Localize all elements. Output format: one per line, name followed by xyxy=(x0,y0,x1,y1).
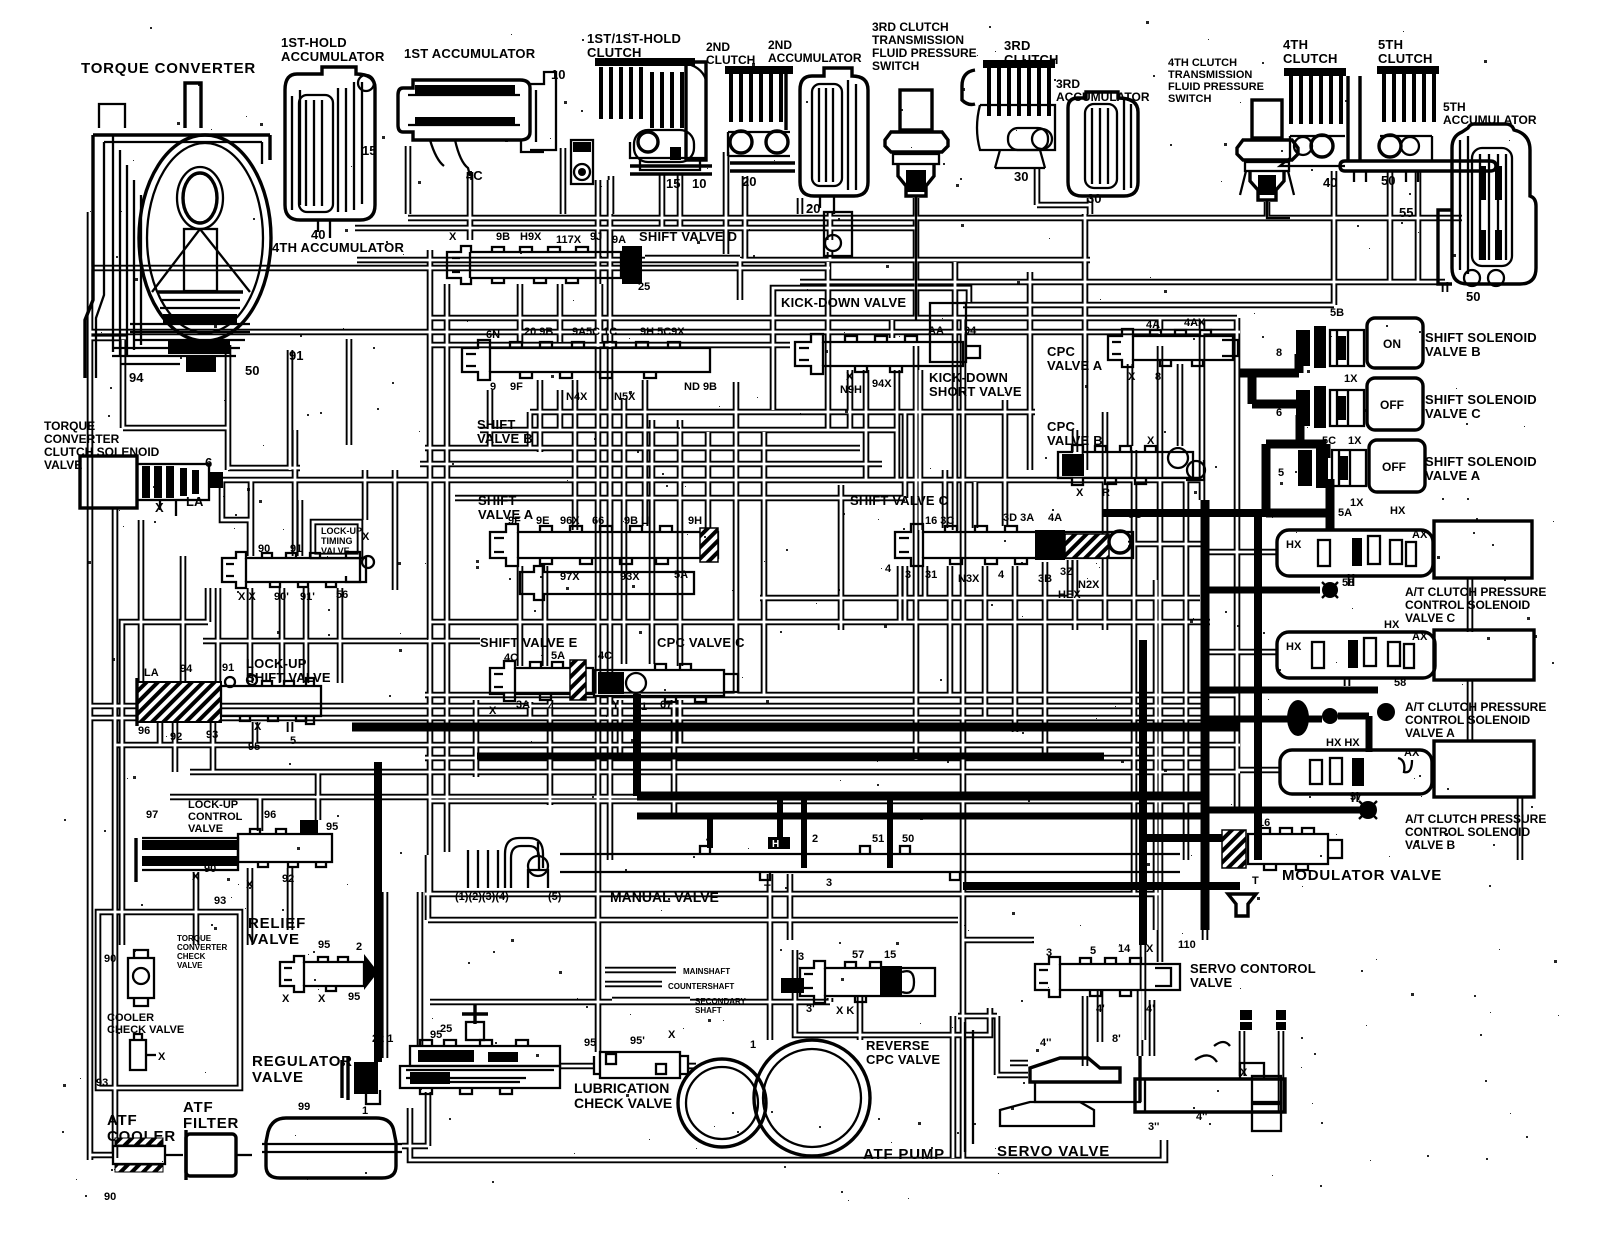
svg-text:15: 15 xyxy=(884,949,896,961)
svg-text:99: 99 xyxy=(298,1101,310,1113)
svg-text:X: X xyxy=(362,531,370,543)
wire kickdown drop 2 xyxy=(894,370,901,480)
wire 4th switch drop xyxy=(1264,202,1271,218)
wire cpc valve c thick drop xyxy=(633,694,641,796)
svg-text:94: 94 xyxy=(129,370,144,385)
wire right trunk 1186 xyxy=(1183,478,1190,860)
wire band2 h4 xyxy=(420,461,882,468)
wire 1st clutch drop b xyxy=(677,174,684,228)
wire left trunk a xyxy=(87,212,94,1160)
wire band2 v6 xyxy=(902,412,909,498)
svg-text:AX: AX xyxy=(1404,747,1420,759)
wire lock-up control drop 2 xyxy=(247,868,254,945)
svg-text:5: 5 xyxy=(1278,467,1284,479)
reverse cpc valve xyxy=(781,949,935,1017)
wire left box wall xyxy=(122,588,208,945)
svg-text:20: 20 xyxy=(742,174,756,189)
wire atcpc c left xyxy=(1202,549,1277,556)
wire right trunk 1237 xyxy=(1234,318,1241,810)
wire top bus 5 xyxy=(430,315,1237,322)
a/t clutch pressure control solenoid valve A body xyxy=(1277,619,1534,736)
svg-text:TORQUE: TORQUE xyxy=(177,934,212,943)
svg-text:SHORT VALVE: SHORT VALVE xyxy=(929,384,1022,399)
svg-text:1: 1 xyxy=(750,1039,756,1051)
svg-text:CONVERTER: CONVERTER xyxy=(177,943,227,952)
svg-text:REVERSE: REVERSE xyxy=(866,1038,930,1053)
svg-text:3Z: 3Z xyxy=(1060,566,1073,578)
svg-text:9: 9 xyxy=(490,381,496,393)
wire valve b port drop xyxy=(1352,792,1359,802)
wire kickdown drop 1 xyxy=(863,370,870,480)
svg-text:COOLER: COOLER xyxy=(107,1012,154,1024)
svg-text:30: 30 xyxy=(1087,191,1101,206)
svg-text:SHAFT: SHAFT xyxy=(695,1006,722,1015)
svg-text:X K: X K xyxy=(836,1005,854,1017)
4th clutch transmission fluid pressure switch xyxy=(1237,100,1298,218)
svg-text:30: 30 xyxy=(1014,169,1028,184)
svg-text:5A: 5A xyxy=(551,650,565,662)
wire right trunk 1202 upper xyxy=(1199,318,1206,500)
wire modulator feed (thick) xyxy=(1143,834,1222,842)
svg-text:5TH: 5TH xyxy=(1443,100,1466,114)
wire ball a feed 2 (thick) xyxy=(1202,716,1322,723)
svg-text:9H: 9H xyxy=(688,515,702,527)
svg-text:SWITCH: SWITCH xyxy=(1168,93,1211,105)
svg-text:X: X xyxy=(1146,943,1154,955)
wire ladder v2 xyxy=(649,420,656,664)
wire solenoid feed wire xyxy=(222,477,1202,484)
svg-text:A/T CLUTCH PRESSURE: A/T CLUTCH PRESSURE xyxy=(1405,585,1546,599)
svg-text:TRANSMISSION: TRANSMISSION xyxy=(1168,69,1252,81)
svg-text:92: 92 xyxy=(170,731,182,743)
wire bus 282 xyxy=(800,279,1445,286)
wire band2 h2 xyxy=(480,427,898,434)
svg-text:1X: 1X xyxy=(1348,435,1362,447)
svg-text:2: 2 xyxy=(812,833,818,845)
svg-text:31: 31 xyxy=(925,569,937,581)
svg-text:(5): (5) xyxy=(548,891,562,903)
wire 1st clutch drop a xyxy=(659,174,666,228)
svg-text:Y: Y xyxy=(612,699,620,711)
wire lock-up control drop 1 xyxy=(193,872,200,945)
wire valve a port drop xyxy=(1344,677,1351,686)
wire tc tail drop xyxy=(123,345,228,470)
1st-hold accumulator xyxy=(285,67,375,238)
svg-text:91: 91 xyxy=(290,543,302,555)
svg-text:VALVE B: VALVE B xyxy=(1425,344,1481,359)
svg-text:1ST/1ST-HOLD: 1ST/1ST-HOLD xyxy=(587,31,681,46)
svg-text:X X: X X xyxy=(238,591,256,603)
svg-text:9B: 9B xyxy=(496,231,510,243)
wire reverse cpc drop xyxy=(830,996,860,1040)
wire manual valve box bottom xyxy=(428,855,958,920)
svg-text:3RD: 3RD xyxy=(1004,38,1031,53)
wire ladder v3 xyxy=(677,420,684,666)
svg-text:ND 9B: ND 9B xyxy=(684,381,717,393)
wire valve b thick feed (thick) xyxy=(1338,716,1369,752)
svg-text:91': 91' xyxy=(300,591,315,603)
wire regulator feed h xyxy=(430,999,830,1006)
svg-text:6N: 6N xyxy=(486,329,500,341)
wire svd to svb drop 2 xyxy=(557,284,564,342)
svg-text:3RD CLUTCH: 3RD CLUTCH xyxy=(872,20,949,34)
svg-text:X: X xyxy=(489,705,497,717)
svg-text:SERVO CONTOROL: SERVO CONTOROL xyxy=(1190,961,1316,976)
svg-text:A/T CLUTCH PRESSURE: A/T CLUTCH PRESSURE xyxy=(1405,700,1546,714)
wire band2 v5 xyxy=(847,370,854,430)
svg-text:1X: 1X xyxy=(1350,497,1364,509)
wire sve drop 1 xyxy=(527,702,534,718)
svg-text:X: X xyxy=(1240,1067,1248,1079)
svg-text:40: 40 xyxy=(1323,175,1337,190)
shift valve C xyxy=(885,509,1142,601)
wire svb drop 1 xyxy=(537,380,544,452)
svg-text:X: X xyxy=(1147,435,1155,447)
a/t clutch pressure control solenoid valve B body xyxy=(1280,737,1534,819)
svg-text:VALVE: VALVE xyxy=(177,961,203,970)
svg-text:LOCK-UP: LOCK-UP xyxy=(246,656,307,671)
lock-up timing valve xyxy=(222,531,374,603)
svg-text:ACCUMULATOR: ACCUMULATOR xyxy=(281,49,385,64)
svg-text:CHECK VALVE: CHECK VALVE xyxy=(574,1095,672,1111)
wire trunk 790 manual xyxy=(787,874,794,940)
svg-text:4AX: 4AX xyxy=(1184,317,1206,329)
svg-text:H9X: H9X xyxy=(520,231,542,243)
wire bottom loop xyxy=(410,1108,1165,1160)
wire band2 v10 xyxy=(1102,412,1109,630)
svg-text:CHECK: CHECK xyxy=(177,952,206,961)
wire top bus 7 xyxy=(430,342,790,349)
wire 2nd clutch drop xyxy=(742,176,749,260)
wire servo 4p drop2 xyxy=(1137,990,1144,1056)
wire band3 h2 xyxy=(430,619,1210,626)
svg-text:VALVE: VALVE xyxy=(1190,975,1233,990)
atf filter xyxy=(186,1130,252,1180)
svg-text:90: 90 xyxy=(204,863,216,875)
wire lock-up shift drop 1 xyxy=(138,520,145,684)
svg-text:VALVE A: VALVE A xyxy=(478,507,534,522)
svg-text:9A: 9A xyxy=(612,234,626,246)
svg-text:VALVE: VALVE xyxy=(252,1069,304,1086)
wire 5th clutch manifold drop xyxy=(1415,171,1422,282)
svg-text:MANUAL VALVE: MANUAL VALVE xyxy=(610,889,719,905)
svg-text:2: 2 xyxy=(356,941,362,953)
svg-text:3A: 3A xyxy=(516,699,530,711)
svg-text:1ST ACCUMULATOR: 1ST ACCUMULATOR xyxy=(404,46,536,61)
svg-text:HX: HX xyxy=(1384,619,1400,631)
svg-text:X: X xyxy=(254,721,262,733)
svg-text:5B: 5B xyxy=(1330,307,1344,319)
wire sve drop extra xyxy=(473,700,480,777)
wire svc top drop 1 xyxy=(942,470,949,528)
wire regulator thick feed (thick) xyxy=(374,762,382,1062)
lubrication check valve xyxy=(584,1029,688,1078)
wire svc low v1 xyxy=(897,566,904,622)
wire svc ladder 1 xyxy=(1002,400,1009,456)
svg-text:SHIFT VALVE E: SHIFT VALVE E xyxy=(480,635,578,650)
svg-text:KICK-DOWN: KICK-DOWN xyxy=(929,370,1008,385)
svg-text:50: 50 xyxy=(902,833,914,845)
svg-text:57: 57 xyxy=(1350,791,1362,803)
shift valve E xyxy=(489,650,612,717)
svg-text:4A: 4A xyxy=(1146,319,1160,331)
3rd accumulator xyxy=(1068,92,1138,196)
svg-text:4'': 4'' xyxy=(1196,1111,1208,1123)
svg-text:LOCK-UP: LOCK-UP xyxy=(188,799,238,811)
svg-text:HX: HX xyxy=(1286,539,1302,551)
svg-text:9F: 9F xyxy=(510,381,523,393)
svg-text:96: 96 xyxy=(138,725,150,737)
wire ball c feed (thick) xyxy=(1202,587,1320,594)
wire svc bot drop 4 xyxy=(1042,562,1049,758)
wire countershaft line xyxy=(605,981,662,988)
wire lock-up timing drop 4 xyxy=(337,588,344,683)
wire bus 305 xyxy=(963,302,1334,309)
wire sol feed h1 (thick) xyxy=(1240,369,1299,378)
svg-text:CLUTCH: CLUTCH xyxy=(1283,51,1338,66)
wire right trunk 1134 xyxy=(1131,450,1138,894)
svg-text:4TH ACCUMULATOR: 4TH ACCUMULATOR xyxy=(272,240,404,255)
wire kickdown port 9 xyxy=(889,320,896,338)
wire servo ctl right xyxy=(1157,894,1164,962)
wire servo right v xyxy=(1010,1060,1028,1067)
wire right trunk 1475 xyxy=(1467,578,1474,741)
svg-text:1: 1 xyxy=(362,1105,368,1117)
svg-text:93: 93 xyxy=(96,1077,108,1089)
wire reverse cpc box xyxy=(795,950,990,1035)
wire trunk 598 xyxy=(595,180,602,1052)
wire sve drop 2 xyxy=(547,700,554,805)
wire band3 h1 xyxy=(760,595,1200,602)
1st accumulator xyxy=(398,72,556,176)
wire svc right out xyxy=(1128,541,1202,548)
wire trunk 963 xyxy=(960,318,967,1160)
modulator valve xyxy=(1222,817,1342,916)
torque converter clutch solenoid valve xyxy=(80,456,223,516)
svg-text:1ST-HOLD: 1ST-HOLD xyxy=(281,35,347,50)
svg-text:95: 95 xyxy=(348,991,360,1003)
wire sva to sve drop 2 xyxy=(542,566,549,666)
svg-text:FLUID PRESSURE: FLUID PRESSURE xyxy=(1168,81,1264,93)
svg-text:3: 3 xyxy=(905,569,911,581)
svg-text:9F: 9F xyxy=(508,515,521,527)
svg-text:TORQUE: TORQUE xyxy=(44,419,95,433)
svg-text:91: 91 xyxy=(289,348,303,363)
svg-text:5A: 5A xyxy=(674,569,688,581)
wire band2 v7 xyxy=(917,370,924,530)
svg-text:CPC: CPC xyxy=(1047,344,1075,359)
svg-text:56: 56 xyxy=(336,589,348,601)
svg-text:1X: 1X xyxy=(1344,373,1358,385)
svg-text:X: X xyxy=(1128,371,1136,383)
svg-text:5: 5 xyxy=(1090,945,1096,957)
wire tc left drop xyxy=(90,335,128,342)
3rd clutch xyxy=(962,60,1055,168)
svg-text:58: 58 xyxy=(1394,677,1406,689)
wire svc top drop 3 xyxy=(1002,456,1009,526)
svg-text:50: 50 xyxy=(245,363,259,378)
svg-text:9E: 9E xyxy=(536,515,549,527)
svg-text:ATF: ATF xyxy=(107,1112,137,1129)
manual valve xyxy=(455,833,1180,903)
wire thick low band (thick) xyxy=(963,882,1240,890)
svg-text:FILTER: FILTER xyxy=(183,1115,239,1132)
svg-text:X: X xyxy=(158,1051,166,1063)
wire sol feed h3 (thick) xyxy=(1266,440,1326,449)
wire trunk 770 manual xyxy=(767,874,774,1040)
svg-text:66: 66 xyxy=(592,515,604,527)
wire ladder v4 xyxy=(705,432,712,560)
svg-text:96: 96 xyxy=(264,809,276,821)
svg-text:3: 3 xyxy=(826,877,832,889)
svg-text:4: 4 xyxy=(998,569,1005,581)
svg-text:H: H xyxy=(772,839,779,850)
svg-text:ATF: ATF xyxy=(183,1099,213,1116)
wire right trunk 1156 xyxy=(1153,580,1160,930)
wire svc bot drop 3 xyxy=(1012,566,1019,732)
second deck below shift valve A xyxy=(520,566,694,600)
wire svd to svb drop 3 xyxy=(597,284,604,342)
cooler check valve xyxy=(96,1034,166,1089)
strainer xyxy=(262,1101,402,1178)
svg-text:N5X: N5X xyxy=(614,391,636,403)
svg-text:VALVE: VALVE xyxy=(248,931,300,948)
wire thick trunk 1202 lower (thick) xyxy=(1201,500,1210,930)
svg-text:1: 1 xyxy=(641,701,647,713)
wire cooler box outline xyxy=(98,912,240,1088)
svg-text:X: X xyxy=(449,231,457,243)
svg-text:N3X: N3X xyxy=(958,573,980,585)
svg-text:8': 8' xyxy=(1112,1033,1121,1045)
wire servo right 2 xyxy=(1239,1031,1246,1076)
svg-text:4A: 4A xyxy=(1048,512,1062,524)
wire top bus 4 long xyxy=(90,265,830,272)
svg-text:9J: 9J xyxy=(590,231,602,243)
svg-text:3: 3 xyxy=(1046,947,1052,959)
wire svb drop 4 xyxy=(642,380,649,526)
svg-text:90': 90' xyxy=(274,591,289,603)
svg-text:VALVE B: VALVE B xyxy=(477,431,533,446)
svg-text:SECONDARY: SECONDARY xyxy=(695,997,746,1006)
svg-text:67: 67 xyxy=(660,699,672,711)
svg-text:VALVE A: VALVE A xyxy=(1047,358,1103,373)
svg-text:VALVE C: VALVE C xyxy=(1425,406,1481,421)
svg-text:HX: HX xyxy=(1390,505,1406,517)
svg-text:90: 90 xyxy=(104,953,116,965)
wire band2 h3 xyxy=(425,445,860,452)
wire thick trunk 1143 (thick) xyxy=(1139,640,1147,945)
lock-up control valve xyxy=(136,809,338,907)
wire servo right h xyxy=(1160,1140,1167,1160)
atf pump circles xyxy=(678,1039,870,1156)
wire timing up v3 xyxy=(362,470,369,520)
svg-text:LUBRICATION: LUBRICATION xyxy=(574,1080,669,1096)
svg-text:SERVO VALVE: SERVO VALVE xyxy=(997,1143,1110,1160)
wire band2 v4 xyxy=(825,262,832,430)
wire cpcc drop 3 xyxy=(677,700,684,745)
wire servo left wall xyxy=(950,1016,957,1158)
wire sol feed v1 (thick) xyxy=(1248,373,1257,404)
svg-text:16 3C: 16 3C xyxy=(925,515,954,527)
svg-text:T: T xyxy=(764,883,771,895)
svg-text:CLUTCH: CLUTCH xyxy=(706,53,755,67)
wire timing valve top 1 xyxy=(222,480,250,556)
svg-text:FLUID PRESSURE: FLUID PRESSURE xyxy=(872,46,977,60)
svg-text:TIMING: TIMING xyxy=(321,536,353,546)
svg-text:CONTROL SOLENOID: CONTROL SOLENOID xyxy=(1405,598,1530,612)
wire lock-up shift drop 2 xyxy=(180,556,187,684)
svg-text:96X: 96X xyxy=(560,515,580,527)
wire 5th accum feed drop xyxy=(1442,282,1449,292)
cpc valve C xyxy=(594,664,738,713)
shift solenoid valve B (coil + ON box) xyxy=(1276,307,1423,385)
wire cpcc drop 1 xyxy=(617,700,624,758)
svg-text:VALVE B: VALVE B xyxy=(1405,838,1456,852)
wire cpcc drop 2 xyxy=(671,700,678,818)
svg-text:50: 50 xyxy=(1381,173,1395,188)
wire thick 513 left (thick) xyxy=(1102,509,1266,517)
svg-text:91: 91 xyxy=(222,662,234,674)
svg-text:50: 50 xyxy=(1466,289,1480,304)
wire left mid v1 xyxy=(392,470,399,590)
2nd accumulator xyxy=(800,68,868,256)
svg-text:20 9B: 20 9B xyxy=(524,326,553,338)
3rd clutch transmission fluid pressure switch xyxy=(885,90,948,320)
svg-text:97: 97 xyxy=(146,809,158,821)
wire 2nd accum drop b xyxy=(827,212,834,240)
wire 2nd accum ball drop xyxy=(827,252,834,260)
wire servo trunk 1205 xyxy=(1202,872,1209,940)
wire 3rd switch drop xyxy=(913,198,920,318)
wire mid band 1 xyxy=(425,692,1237,699)
svg-text:93: 93 xyxy=(214,895,226,907)
wire trunk 916 low xyxy=(913,346,920,760)
svg-text:CLUTCH: CLUTCH xyxy=(587,45,642,60)
wire ladder v1 xyxy=(621,398,628,664)
svg-text:VALVE A: VALVE A xyxy=(1425,468,1481,483)
svg-text:5TH: 5TH xyxy=(1378,37,1403,52)
wire svd to svb drop 1 xyxy=(517,284,524,342)
wire timing up v2 xyxy=(292,430,299,556)
wire top bus 1 xyxy=(408,215,1462,222)
wire svd right elbow xyxy=(645,258,740,300)
wire mid band 2 xyxy=(90,703,1202,710)
svg-text:4'': 4'' xyxy=(1040,1037,1052,1049)
1st/1st-hold clutch xyxy=(595,58,712,174)
a/t clutch pressure control solenoid valve C body xyxy=(1277,505,1532,598)
svg-text:95: 95 xyxy=(318,939,330,951)
wire band2 v8 xyxy=(952,262,959,530)
wire atcpc b left xyxy=(1237,767,1280,774)
wire sol feed h4 (thick) xyxy=(1266,509,1330,518)
wire lock-up timing drop 3 xyxy=(303,588,310,683)
svg-text:8: 8 xyxy=(1155,371,1161,383)
svg-text:N4X: N4X xyxy=(566,391,588,403)
wire top bus 2 xyxy=(355,225,916,232)
svg-text:94X: 94X xyxy=(872,378,892,390)
wire thick mid band (thick) xyxy=(352,723,1240,732)
svg-text:HX HX: HX HX xyxy=(1326,737,1360,749)
svg-text:2ND: 2ND xyxy=(706,40,730,54)
svg-text:T: T xyxy=(1252,875,1259,887)
wire band2 v2 xyxy=(527,412,534,448)
svg-text:4: 4 xyxy=(885,563,892,575)
svg-text:15: 15 xyxy=(666,176,680,191)
svg-text:25: 25 xyxy=(638,281,650,293)
wire band2 v3 xyxy=(557,390,564,430)
svg-text:SHIFT VALVE: SHIFT VALVE xyxy=(246,670,331,685)
4th clutch xyxy=(1280,68,1360,166)
